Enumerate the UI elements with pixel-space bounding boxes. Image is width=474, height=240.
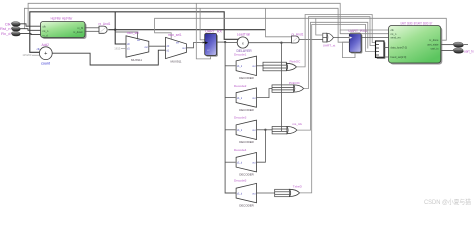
output port tx_done — [453, 42, 468, 48]
svg-text:uart_tx: uart_tx — [464, 49, 474, 53]
svg-text:data_byte[7:0]: data_byte[7:0] — [391, 46, 408, 50]
wire decode4 join — [257, 130, 266, 162]
svg-text:sel: sel — [137, 39, 141, 42]
svg-text:out: out — [182, 47, 186, 50]
wire decoder feed bus — [225, 42, 236, 193]
svg-text:MUX911: MUX911 — [170, 60, 181, 64]
svg-text:Rx_d: Rx_d — [1, 31, 10, 36]
svg-text:MUX911: MUX911 — [131, 58, 142, 62]
wire rst to filter — [20, 29, 41, 31]
wire reg to leadtrail — [225, 42, 237, 44]
svg-text:rst_n: rst_n — [43, 29, 49, 33]
decoder Decode5 — [234, 179, 257, 208]
wire green clk2 — [340, 30, 388, 34]
svg-text:Decode1: Decode1 — [234, 52, 247, 56]
decoder Decode1 — [234, 52, 257, 80]
wire clk to filter — [20, 24, 41, 26]
wire bus branch decode4 — [225, 161, 235, 163]
wire reg2 feedback loop — [343, 42, 356, 57]
wire rx to filter — [20, 34, 41, 35]
wire counter out — [52, 50, 165, 65]
wire gate2 top input from R2 — [266, 8, 292, 37]
wire row2 up — [304, 17, 376, 89]
svg-text:rx_And1: rx_And1 — [99, 22, 111, 26]
svg-text:out: out — [252, 65, 256, 68]
and gate rx_And2 — [292, 32, 304, 43]
or gate UART fsm — [323, 33, 336, 47]
svg-text:out: out — [252, 129, 256, 132]
input port Rst_n — [0, 26, 20, 31]
svg-text:uart_tx: uart_tx — [431, 47, 440, 51]
svg-text:Add2: Add2 — [42, 43, 50, 47]
decoder Decode4 — [234, 148, 257, 177]
svg-text:out: out — [144, 46, 148, 49]
wire tx_done feedback rail — [155, 18, 447, 40]
junction dots — [114, 29, 116, 31]
svg-text:rst_n: rst_n — [391, 32, 397, 36]
wire reg out to bus — [217, 41, 226, 43]
svg-text:d1_d: d1_d — [237, 162, 243, 164]
svg-text:rx_And1: rx_And1 — [292, 32, 304, 36]
or gate row1 — [286, 59, 301, 70]
decoder Decode3 — [234, 115, 257, 144]
svg-text:out: out — [252, 192, 256, 195]
wire clk rail to reg x196 — [196, 3, 210, 59]
wire concat to green data — [384, 47, 389, 49]
constant label for MUX1 d1 — [114, 47, 126, 51]
svg-text:mux_sel: mux_sel — [127, 31, 139, 35]
svg-text:Decode5: Decode5 — [234, 179, 247, 183]
wire rail R3 dark feedback — [30, 12, 239, 53]
wire junction vertical x115 — [115, 12, 126, 44]
svg-text:1815: 1815 — [114, 47, 121, 51]
wire reg2 out — [361, 37, 388, 39]
wire gate3 upper input — [316, 18, 323, 35]
wire filter out2 — [85, 30, 99, 32]
mux MUX2 — [166, 33, 187, 63]
register UART_RX — [205, 29, 223, 56]
wire decode5 out — [257, 192, 275, 194]
svg-text:LeadTrail: LeadTrail — [237, 33, 250, 37]
wire decode2 to bus2 — [257, 89, 273, 98]
svg-text:rx_down: rx_down — [73, 30, 83, 34]
wire rail R2 — [24, 8, 349, 42]
decoder Decode2 — [234, 84, 257, 112]
bus lines row5 — [275, 189, 290, 196]
svg-text:ms_tck: ms_tck — [292, 122, 302, 126]
svg-text:UART_RX: UART_RX — [205, 29, 222, 33]
wire bus branch decode3 — [225, 129, 235, 131]
register UART_RX1 — [348, 29, 367, 54]
svg-text:rx_flt: rx_flt — [77, 26, 83, 30]
wire row3 up — [297, 22, 368, 130]
mux MUX1 — [126, 31, 149, 62]
wire to outport1 — [441, 44, 453, 46]
wire gate1 output dark rail — [108, 29, 265, 31]
wire to outport2 — [441, 50, 453, 52]
wire rail R1 top — [28, 3, 388, 30]
input port Rx_d — [1, 31, 20, 36]
wire gate3 out to reg2 — [333, 37, 349, 39]
svg-text:UART_st: UART_st — [323, 44, 336, 48]
svg-text:DECODER: DECODER — [239, 172, 253, 176]
wire row1 up — [297, 15, 376, 67]
wire gate2 out to gate3 — [299, 39, 324, 41]
svg-text:UART_SEND_BYUART_SEND_BY: UART_SEND_BYUART_SEND_BY — [401, 21, 433, 25]
svg-text:out: out — [252, 161, 256, 164]
svg-text:x: x — [242, 42, 244, 46]
svg-text:PinbOC: PinbOC — [290, 59, 302, 63]
wire bus branch decode2 — [225, 97, 235, 99]
svg-text:Decode2: Decode2 — [234, 84, 247, 88]
wire mux1 to mux2 — [149, 45, 166, 47]
svg-text:+: + — [44, 51, 47, 57]
input port Clk — [5, 21, 21, 26]
wire filter out1 — [85, 27, 99, 29]
wire decode1 to bus1 — [257, 65, 264, 67]
sum block Add2 (baud counter) — [37, 43, 53, 66]
svg-text:out: out — [252, 97, 256, 100]
svg-text:DECODER: DECODER — [239, 204, 253, 208]
svg-text:CSDN @小夏与猫: CSDN @小夏与猫 — [424, 197, 472, 206]
wire leadtrail out — [248, 42, 291, 44]
svg-text:DECODER: DECODER — [239, 76, 253, 80]
svg-text:TxbeD: TxbeD — [293, 185, 303, 189]
svg-text:count: count — [41, 62, 50, 66]
wire row5 up — [300, 25, 376, 193]
bus lines row2 — [272, 85, 294, 92]
edge detect LeadTrail — [237, 33, 253, 53]
svg-text:DECODER: DECODER — [239, 108, 253, 112]
svg-text:d1_d: d1_d — [237, 193, 243, 195]
or gate row2 — [289, 81, 304, 92]
svg-text:HqcFilter HqcFilter: HqcFilter HqcFilter — [51, 16, 74, 20]
output port uart_tx — [453, 48, 474, 54]
svg-text:d1_d: d1_d — [237, 66, 243, 68]
concat block — [376, 41, 386, 59]
svg-text:Decode3: Decode3 — [234, 115, 247, 119]
wire concat to green baud — [376, 56, 389, 59]
wire mux2 to reg — [187, 43, 205, 48]
wire mux1 sel tap — [115, 32, 137, 39]
svg-text:PinbOC: PinbOC — [289, 81, 301, 85]
svg-text:UART_RX1: UART_RX1 — [348, 29, 367, 33]
svg-text:DECODER: DECODER — [239, 140, 253, 144]
or gate row5 — [290, 185, 303, 197]
wire decode3 out — [257, 129, 273, 131]
constant label for Add2 — [22, 53, 39, 57]
svg-text:mux_sel1: mux_sel1 — [168, 33, 182, 37]
wire leadtrail tee down through bus rows — [280, 43, 282, 131]
svg-text:uart_state: uart_state — [427, 43, 439, 47]
svg-text:115200: 115200 — [22, 53, 32, 57]
svg-text:send_en: send_en — [391, 35, 402, 39]
svg-text:d1_d: d1_d — [237, 98, 243, 100]
svg-text:d1_d: d1_d — [237, 130, 243, 132]
svg-text:baud_set[2:0]: baud_set[2:0] — [391, 55, 407, 59]
subsystem UART_SEND_BYTE — [389, 21, 443, 64]
svg-text:rx_d: rx_d — [43, 33, 49, 37]
wire rst rail to reg x200 — [200, 8, 205, 40]
or gate row3 — [287, 122, 303, 134]
bus lines row3 — [272, 127, 287, 134]
svg-text:tx_done: tx_done — [429, 38, 439, 42]
wire bus branch decode1 — [225, 65, 235, 67]
bus lines row1 — [263, 62, 286, 71]
svg-text:sel: sel — [176, 41, 180, 44]
subsystem HqcFilter — [41, 16, 87, 39]
svg-text:Decode4: Decode4 — [234, 148, 247, 152]
and gate rx_And1 — [99, 22, 111, 34]
